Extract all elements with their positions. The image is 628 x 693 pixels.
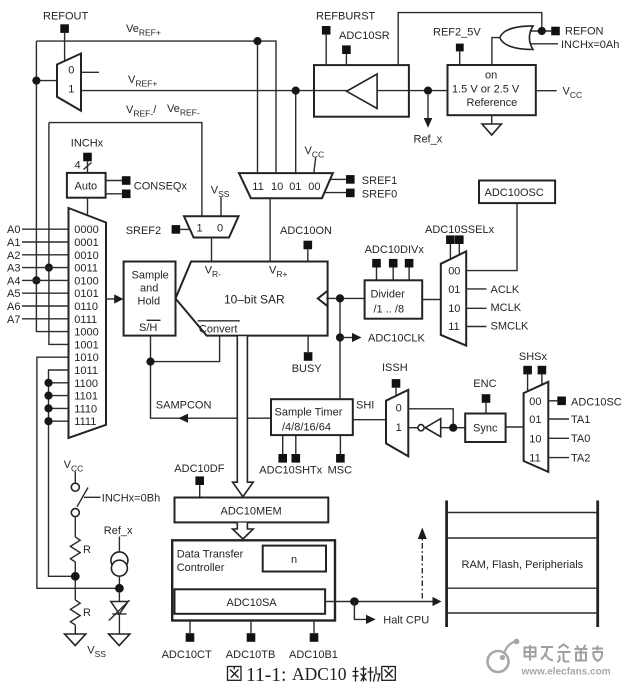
- svg-text:S/H: S/H: [139, 322, 157, 334]
- node clock junction 2: [336, 333, 344, 341]
- wire Ref_x arrow down: [414, 95, 443, 146]
- node S/H convert junction: [146, 358, 154, 366]
- node temp sensor junction: [115, 584, 124, 593]
- pin SHSx (2 squares): [519, 351, 548, 391]
- resistor R (lower): [70, 600, 91, 625]
- register ADC10SA: [175, 589, 326, 614]
- svg-text:10: 10: [448, 303, 460, 315]
- svg-text:REF2_5V: REF2_5V: [433, 27, 481, 39]
- svg-text:1110: 1110: [74, 403, 97, 415]
- mux M1 REFOUT select 0/1: [57, 54, 81, 111]
- wire switch to resistor: [74, 517, 76, 537]
- or-gate U2 reference enable (mirrored, inputs right): [500, 26, 533, 50]
- wire SREF mux output VR+: [269, 198, 271, 261]
- pin ADC10CT: [162, 621, 212, 661]
- watermark CJK text: dian zi fa shao you: [525, 645, 604, 663]
- pin BUSY: [292, 336, 323, 375]
- net label VREF+: [128, 74, 157, 89]
- svg-text:0100: 0100: [74, 275, 98, 287]
- svg-text:1011: 1011: [74, 365, 98, 377]
- ground below reference: [482, 115, 501, 135]
- svg-text:0011: 0011: [74, 263, 98, 275]
- svg-text:SREF1: SREF1: [362, 175, 397, 187]
- wires A0-A7 to input mux: [22, 229, 69, 319]
- svg-text:1100: 1100: [74, 378, 98, 390]
- svg-text:Ref_x: Ref_x: [414, 134, 443, 146]
- svg-text:ADC10DIVx: ADC10DIVx: [365, 244, 425, 256]
- ground below diode: [109, 614, 130, 646]
- wire VREF+ line from M1 through buffer to reference: [81, 91, 448, 174]
- svg-text:Divider: Divider: [371, 289, 406, 301]
- svg-text:A2: A2: [7, 250, 20, 262]
- svg-text:VREF+: VREF+: [128, 74, 157, 89]
- svg-text:Controller: Controller: [177, 562, 225, 574]
- label Convert with overline: [198, 321, 240, 336]
- svg-text:and: and: [140, 282, 158, 294]
- wire Sync to SHSx mux: [506, 426, 524, 428]
- wire S/H - Convert - SAMPCON net: [151, 336, 272, 423]
- svg-text:ADC10SHTx: ADC10SHTx: [259, 464, 322, 476]
- pin CONSEQx: [106, 176, 188, 198]
- wire inverter chain to Sync: [408, 427, 465, 429]
- svg-text:VeREF+: VeREF+: [126, 23, 161, 38]
- svg-text:11: 11: [529, 453, 540, 465]
- svg-text:0101: 0101: [74, 288, 98, 300]
- pin ADC10DIVx (3 squares): [365, 244, 425, 280]
- svg-text:ADC10: ADC10: [292, 664, 347, 684]
- svg-text:01: 01: [448, 284, 460, 296]
- svg-text:1: 1: [68, 84, 74, 96]
- wire OR output to reference box: [492, 38, 500, 65]
- svg-text:0111: 0111: [74, 314, 97, 326]
- svg-text:00: 00: [529, 396, 541, 408]
- pin REF2_5V: [433, 27, 481, 66]
- node A4 tap on VeREF+ rail: [32, 276, 40, 284]
- svg-text:Data Transfer: Data Transfer: [177, 548, 244, 560]
- inverter U4 (bubble + triangle): [418, 419, 441, 437]
- svg-text:/4/8/16/64: /4/8/16/64: [282, 421, 331, 433]
- pin ADC10TB: [226, 621, 276, 661]
- wires channels 1100-1111 taps: [49, 383, 69, 421]
- wire channel 1011 rail to resistor divider: [49, 370, 76, 576]
- svg-text:ADC10SA: ADC10SA: [227, 597, 278, 609]
- svg-text:REFBURST: REFBURST: [316, 11, 376, 23]
- wire VeREF+ top run to SREF mux inputs 11 and 10: [36, 41, 276, 173]
- svg-text:0: 0: [217, 223, 223, 235]
- svg-text:ADC10B1: ADC10B1: [289, 649, 338, 661]
- block Sync: [465, 414, 505, 443]
- svg-text:4: 4: [75, 160, 81, 172]
- pin MSC: [328, 435, 353, 476]
- net label VR+: [269, 265, 287, 280]
- svg-text:SMCLK: SMCLK: [491, 321, 530, 333]
- svg-text:A1: A1: [7, 237, 20, 249]
- svg-text:/1 .. /8: /1 .. /8: [374, 304, 405, 316]
- svg-text:ADC10CT: ADC10CT: [162, 649, 212, 661]
- block Auto (autoscan): [67, 173, 106, 198]
- svg-text:www.elecfans.com: www.elecfans.com: [521, 667, 611, 678]
- wire SMCLK input: [466, 321, 529, 333]
- svg-text:1010: 1010: [74, 352, 98, 364]
- svg-text:A0: A0: [7, 224, 20, 236]
- nodes on divider rail 1100-1111: [44, 379, 52, 426]
- svg-text:SHSx: SHSx: [519, 351, 548, 363]
- net label VR-: [205, 265, 221, 280]
- svg-text:INCHx: INCHx: [71, 138, 104, 150]
- diode D1 temperature: [109, 593, 130, 621]
- wire REFON to buffer top: [398, 13, 542, 66]
- svg-text:0: 0: [68, 65, 74, 77]
- svg-text:ADC10MEM: ADC10MEM: [221, 505, 282, 517]
- svg-text:0: 0: [396, 402, 402, 414]
- wire INCHx=0Ah input: [531, 39, 620, 51]
- pin ENC: [473, 378, 496, 414]
- wire sensor to node: [118, 576, 120, 584]
- bus arrow ADC10MEM to DTC (hollow): [233, 523, 254, 539]
- wire Auto to input mux: [87, 198, 89, 216]
- svg-text:n: n: [291, 554, 297, 566]
- wire M1 output 0 stub: [81, 71, 99, 73]
- svg-text:VCC: VCC: [305, 145, 325, 160]
- svg-text:TA2: TA2: [571, 453, 590, 465]
- pin SREF2: [126, 225, 191, 237]
- svg-text:SAMPCON: SAMPCON: [156, 399, 212, 411]
- watermark logo: [488, 639, 520, 672]
- node A3 tap on VREF- rail: [45, 264, 53, 272]
- net label VREF- / VeREF-: [126, 103, 200, 119]
- svg-text:VCC: VCC: [563, 86, 583, 101]
- wire TA0 input: [548, 433, 590, 445]
- svg-text:11: 11: [252, 181, 263, 193]
- svg-text:Convert: Convert: [199, 323, 238, 335]
- svg-text:A5: A5: [7, 288, 20, 300]
- svg-text:ADC10SC: ADC10SC: [571, 396, 622, 408]
- svg-text:ADC10TB: ADC10TB: [226, 649, 276, 661]
- net label Ref_x (temp sensor): [104, 525, 133, 552]
- svg-text:10–bit SAR: 10–bit SAR: [224, 293, 285, 307]
- node VREF+ to SREF input 01: [292, 87, 300, 95]
- svg-text:TA1: TA1: [571, 414, 590, 426]
- node VeREF+ / input 11 junction: [253, 37, 261, 45]
- svg-text:ENC: ENC: [473, 378, 496, 390]
- wire VCC stub of reference: [536, 86, 582, 101]
- input mux INCHx 16:1: [69, 208, 107, 438]
- block Sample and Hold: [124, 262, 176, 336]
- svg-text:A4: A4: [7, 275, 20, 287]
- svg-text:A7: A7: [7, 314, 20, 326]
- wire SHI timer input: [353, 399, 386, 419]
- wire input mux to sample-and-hold with arrow: [106, 294, 123, 303]
- svg-text:1111: 1111: [74, 416, 96, 428]
- svg-text:REFON: REFON: [565, 26, 604, 38]
- pin REFOUT: [43, 11, 89, 62]
- resistor R (upper): [70, 537, 91, 562]
- wire ISSH input 0 path: [408, 409, 453, 428]
- node Ref_x tap: [424, 87, 432, 95]
- block 10-bit SAR U3: [176, 262, 328, 336]
- svg-text:ADC10SR: ADC10SR: [339, 30, 390, 42]
- pin ADC10ON: [280, 225, 332, 262]
- wire channel 1010 rail to temperature sensor: [37, 357, 120, 588]
- svg-text:INCHx=0Ah: INCHx=0Ah: [561, 39, 619, 51]
- wire VeREF+ rail left: [36, 41, 68, 332]
- block Data Transfer Controller: [172, 540, 335, 620]
- register ADC10MEM: [175, 498, 329, 523]
- wire Halt CPU arrow: [354, 602, 429, 627]
- current source (temperature sensor): [111, 552, 128, 576]
- net label VeREF+: [126, 23, 161, 38]
- pin INCHx (4): [71, 138, 104, 173]
- svg-text:Sample Timer: Sample Timer: [275, 406, 343, 418]
- svg-text:MSC: MSC: [328, 464, 353, 476]
- block ADC10OSC: [479, 181, 555, 204]
- pin SREF0: [325, 188, 397, 200]
- svg-text:Hold: Hold: [138, 295, 161, 307]
- wire ADC10SA to memory bus with arrow: [325, 597, 441, 606]
- buffer amplifier box U1: [314, 65, 409, 117]
- pin SREF1: [330, 175, 397, 187]
- pin REFON: [530, 26, 604, 38]
- svg-text:Auto: Auto: [75, 181, 98, 193]
- pin ADC10SSELx (2 squares): [425, 224, 495, 259]
- svg-text:VR-: VR-: [205, 265, 221, 280]
- node trigger junction: [449, 424, 457, 432]
- switch S1 INCHx=0Bh: [71, 472, 160, 517]
- wire divider to ADC10SSELx mux: [422, 299, 441, 301]
- mux SREF 11/10/01/00: [239, 173, 333, 198]
- block Divider /1../8: [365, 280, 423, 318]
- wire TA1 input: [548, 414, 590, 426]
- svg-text:00: 00: [448, 266, 460, 278]
- svg-text:01: 01: [289, 181, 301, 193]
- svg-text:ISSH: ISSH: [382, 362, 408, 374]
- svg-text:0001: 0001: [74, 237, 98, 249]
- wire SREF2 mux output VR-: [211, 238, 213, 262]
- wire VREF- rail left: [49, 123, 69, 345]
- wire resistor to divider node: [74, 562, 76, 600]
- svg-text:ADC10DF: ADC10DF: [174, 463, 224, 475]
- svg-text:ADC10CLK: ADC10CLK: [368, 333, 426, 345]
- node divider midpoint: [71, 572, 80, 581]
- reference box: on 1.5V or 2.5V Reference: [448, 65, 536, 115]
- net label VCC bottom: [64, 459, 84, 474]
- svg-text:REFOUT: REFOUT: [43, 11, 89, 23]
- svg-text:A6: A6: [7, 301, 20, 313]
- pin REFBURST: [316, 11, 376, 66]
- node clock junction 1: [336, 294, 344, 302]
- svg-text:R: R: [83, 544, 91, 556]
- node M1 input junction: [32, 77, 40, 85]
- svg-text:SREF2: SREF2: [126, 225, 161, 237]
- svg-text:10: 10: [271, 181, 283, 193]
- node halt junction: [350, 597, 359, 606]
- svg-text:ADC10SSELx: ADC10SSELx: [425, 224, 495, 236]
- svg-text:Sample: Sample: [132, 269, 169, 281]
- pin ISSH: [382, 362, 408, 396]
- pin ADC10SR: [339, 30, 390, 65]
- wire TA2 input: [548, 453, 590, 465]
- svg-text:VeREF-: VeREF-: [167, 103, 200, 118]
- svg-text:10: 10: [529, 433, 541, 445]
- svg-text:on: on: [485, 70, 497, 82]
- svg-text:Ref_x: Ref_x: [104, 525, 133, 537]
- pin ADC10B1: [289, 621, 338, 661]
- svg-text:INCHx=0Bh: INCHx=0Bh: [102, 492, 160, 504]
- svg-text:R: R: [83, 607, 91, 619]
- svg-text:0110: 0110: [74, 301, 98, 313]
- dashed DTC transfer arrow: [418, 528, 427, 599]
- svg-text:1101: 1101: [74, 391, 98, 403]
- memory map RAM Flash Peripherials: [447, 501, 598, 628]
- block Sample Timer /4/8/16/64: [271, 399, 353, 435]
- net label SAMPCON: [156, 399, 212, 411]
- svg-text:ADC10ON: ADC10ON: [280, 225, 332, 237]
- caption CJK: mo kuai tu glyphs: [353, 667, 396, 682]
- svg-text:01: 01: [529, 414, 541, 426]
- pin ADC10DF: [174, 463, 224, 498]
- wire SAR clock input from divider: [326, 298, 364, 399]
- svg-text:Halt CPU: Halt CPU: [383, 614, 429, 626]
- wire ACLK input: [466, 284, 520, 296]
- svg-text:A3: A3: [7, 263, 20, 275]
- wire VREF- run to SREF2 mux input 1: [49, 123, 202, 217]
- svg-text:1.5 V or 2.5 V: 1.5 V or 2.5 V: [452, 84, 520, 96]
- svg-text:VREF-/: VREF-/: [126, 104, 157, 119]
- ground VSS below divider: [65, 625, 107, 659]
- caption CJK: 图 11-1 : ADC10 (module diagram): [228, 667, 242, 681]
- svg-text:RAM, Flash, Peripherials: RAM, Flash, Peripherials: [462, 559, 584, 571]
- mux SREF2 1/0: [184, 216, 239, 237]
- bus arrow SAR to ADC10MEM (hollow): [233, 336, 254, 496]
- input mux channel code labels 0000-1111: [74, 224, 98, 428]
- mux SHSx trigger source: [524, 382, 549, 472]
- svg-text:ACLK: ACLK: [491, 284, 520, 296]
- svg-text:0010: 0010: [74, 250, 98, 262]
- svg-text:SHI: SHI: [356, 399, 374, 411]
- svg-text:1000: 1000: [74, 327, 98, 339]
- wire ADC10OSC to mux input 00: [466, 203, 517, 271]
- wire ADC10CLK arrow: [340, 333, 426, 345]
- mux ISSH invert select 0/1: [386, 390, 408, 457]
- svg-text:CONSEQx: CONSEQx: [134, 181, 188, 193]
- svg-text:1: 1: [197, 223, 203, 235]
- net label VSS above SREF2 mux: [211, 185, 230, 217]
- svg-text:VR+: VR+: [269, 265, 287, 280]
- svg-text:BUSY: BUSY: [292, 363, 323, 375]
- svg-text:1: 1: [396, 422, 402, 434]
- svg-text:1001: 1001: [74, 339, 98, 351]
- mux ADC10SSELx clock source: [441, 251, 466, 345]
- svg-text:11: 11: [448, 321, 459, 333]
- svg-text:0000: 0000: [74, 224, 98, 236]
- svg-text:Sync: Sync: [473, 422, 498, 434]
- svg-text:VCC: VCC: [64, 459, 84, 474]
- watermark url text: [521, 667, 611, 678]
- svg-text:Reference: Reference: [467, 97, 518, 109]
- svg-text:11-1:: 11-1:: [246, 665, 286, 686]
- pin ADC10SC: [548, 396, 621, 408]
- wire mux M1 input from rail: [36, 80, 57, 82]
- pin ADC10SHTx (2 squares): [259, 435, 322, 476]
- register n: [263, 546, 326, 572]
- wire MCLK input: [466, 302, 522, 314]
- svg-text:VSS: VSS: [87, 645, 106, 660]
- svg-text:SREF0: SREF0: [362, 188, 397, 200]
- svg-text:MCLK: MCLK: [491, 302, 522, 314]
- svg-text:TA0: TA0: [571, 433, 590, 445]
- analog input pins A0-A7: [7, 224, 20, 326]
- net label VCC above SREF mux: [305, 145, 325, 173]
- svg-text:ADC10OSC: ADC10OSC: [485, 187, 544, 199]
- svg-text:00: 00: [308, 181, 320, 193]
